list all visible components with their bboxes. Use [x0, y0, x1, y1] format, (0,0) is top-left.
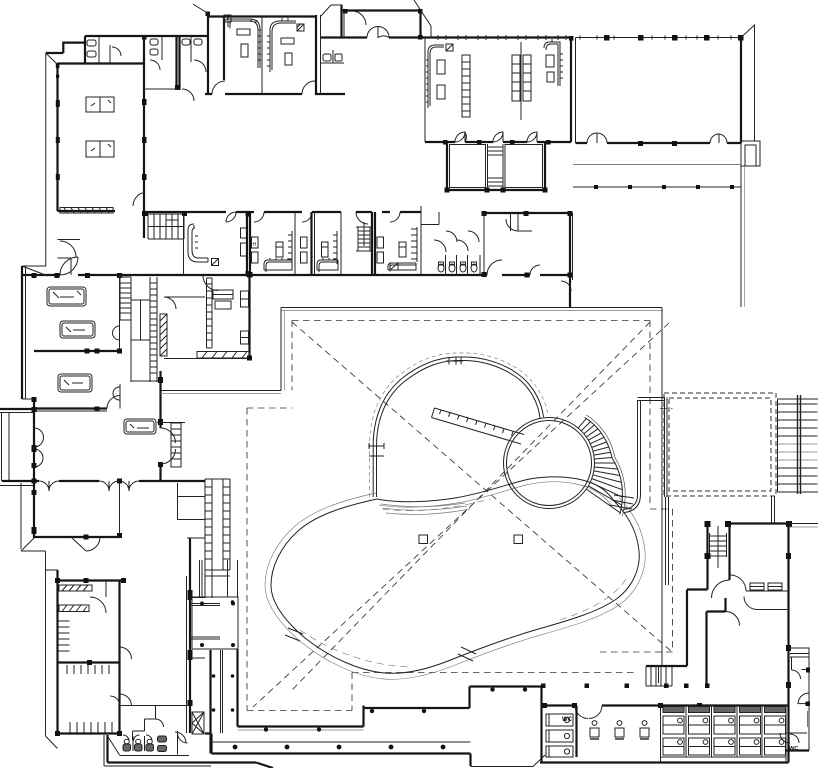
radiator east of hall [157, 423, 185, 468]
top wall of band [144, 211, 421, 213]
hatched column gym W [446, 44, 453, 51]
small WC room x321-345 [321, 50, 344, 63]
vestibule walls [687, 590, 726, 686]
gym west wall [424, 38, 426, 143]
physio east wall [119, 275, 121, 351]
room D furniture [388, 263, 416, 272]
radiator ticks west of WC [411, 227, 417, 262]
deck walkway rails [221, 650, 223, 733]
promenade left end [205, 734, 212, 754]
top corridor WC row right of hall [144, 35, 208, 37]
physio beds [47, 287, 86, 306]
thick north wall piece [340, 5, 342, 39]
wall columns west [56, 63, 60, 68]
cubicle contents 1 [663, 707, 684, 756]
hatch column bottom [192, 712, 204, 734]
center line gym [520, 42, 522, 120]
deck south wall with stair [646, 665, 687, 667]
wall under top rooms [58, 62, 145, 64]
block bottom wall [58, 732, 120, 734]
cubicle bench line [661, 756, 787, 758]
west step diagonal [21, 483, 46, 551]
platform supports [666, 497, 669, 585]
gym items west [437, 60, 445, 74]
treadmill strip 1 [462, 55, 470, 117]
west porch [0, 408, 34, 410]
mid wall of block [58, 661, 120, 663]
corridor partitions right [190, 598, 205, 659]
double door M x367-389 [367, 27, 389, 38]
dashed X diagonals [292, 322, 671, 651]
entrance double doors on west wall [34, 428, 44, 467]
hatched column room2 [297, 24, 304, 31]
hall top wall y408 double [34, 407, 107, 409]
bottom step and outer wall [108, 735, 274, 768]
column squares in hall [419, 535, 428, 544]
stair side wall [706, 523, 708, 590]
cubicle dividers [661, 706, 787, 763]
pool hall east boundary [661, 308, 663, 667]
miter corner top band [193, 4, 208, 14]
plant room box [192, 597, 238, 649]
door arc room below WC row [182, 60, 206, 101]
cubicle contents 4 [740, 707, 761, 756]
main stairwell [120, 277, 157, 382]
terrace dots [212, 674, 216, 678]
door arc below wall into store [203, 276, 218, 291]
west double wall [21, 266, 23, 399]
block west wall with door [728, 524, 730, 581]
hatched wall by stairwell [160, 314, 167, 356]
block top wall [727, 522, 789, 524]
equipment pair center [512, 55, 531, 101]
counter room2 L-shape [267, 18, 296, 72]
WC cubicle dividers [446, 255, 481, 274]
dashed long south line [352, 672, 638, 674]
platform west solid wall [665, 398, 668, 498]
hatched column room1 [224, 15, 231, 22]
pool lower lobe edge [271, 499, 639, 673]
flume top bridge [638, 398, 666, 401]
pool main S-curve [377, 477, 614, 502]
gym double doors M x3 [455, 132, 466, 142]
room B furniture [317, 258, 338, 272]
top wall y10.5 east part [342, 9, 421, 11]
room divider walls [247, 212, 250, 275]
reception desk [124, 419, 156, 434]
kiosk room wall [183, 213, 185, 275]
terrace west wall [236, 649, 238, 727]
east wall mid room [569, 213, 571, 307]
block west thick wall [56, 570, 58, 733]
WC toilets [438, 262, 477, 272]
squash middle walls with steps [488, 144, 504, 188]
kiosk L-counter [188, 224, 208, 262]
pool upper lobe edge [377, 360, 541, 497]
fan stairs east of spa [578, 415, 634, 516]
pool steps left [369, 443, 384, 456]
beach entry lines [381, 503, 470, 514]
items room1 [237, 29, 250, 35]
west wall hall [56, 64, 58, 211]
svg-text:H: H [253, 242, 257, 248]
east boundary double line [789, 523, 818, 525]
room x345-420 door arc [352, 11, 366, 25]
top wall NW room [46, 43, 85, 53]
squash inner court outlines [450, 145, 486, 188]
storage comb ticks upper [58, 621, 70, 651]
bottom wall y275 long [22, 274, 570, 276]
gym bottom wall [425, 141, 571, 143]
spa circle [504, 418, 595, 509]
gym counter west L [426, 45, 444, 108]
hatched benches [59, 585, 92, 591]
entry doors [575, 706, 602, 719]
chairs middle section [590, 721, 649, 739]
east outer wall down to pool hall [740, 166, 742, 307]
comb ticks below mid wall [67, 665, 109, 674]
bottom wall of hall with radiator [58, 210, 116, 212]
cubicle contents 3 [714, 707, 735, 756]
east thick wall of tall hall [143, 36, 145, 238]
walkway wall north-west [161, 390, 282, 392]
west wall top band [207, 14, 209, 95]
door arcs top of band [226, 212, 236, 222]
block doors [90, 581, 106, 614]
small room walls below hall [58, 240, 81, 276]
wall y384 [131, 380, 160, 382]
top wall [545, 704, 789, 706]
main wall y481 with M doors [2, 480, 205, 482]
comb ticks above bottom wall [70, 722, 112, 733]
WC fixtures top corridor [150, 39, 158, 45]
divider rooms 1-2 [261, 17, 263, 95]
west wall jog [22, 398, 34, 400]
west bench column [546, 714, 573, 757]
WC fixtures [123, 735, 167, 752]
toilet divider [99, 36, 110, 64]
counter room 1 walls [208, 17, 316, 81]
corridor walls east [573, 164, 741, 166]
door arc to corridor [175, 732, 186, 743]
room A furniture: bench + bed + fixtures [264, 258, 292, 272]
bottom wall top band [205, 93, 345, 95]
outer overhang line NW [22, 53, 46, 266]
top toilets block wall [85, 36, 144, 64]
pool inner dashed lane lines [382, 499, 490, 511]
cubicle contents 2 [689, 707, 710, 756]
block east thick wall [118, 581, 120, 734]
east double wall room2 [315, 15, 317, 94]
left H-B fixtures of kiosk wall [241, 228, 248, 238]
dashed perimeter west [247, 408, 352, 711]
pool hall north boundary [281, 307, 662, 309]
miter corner NW [46, 53, 58, 65]
gym east double wall [570, 38, 572, 143]
water slide ramp [432, 408, 525, 444]
pool lower lobe outer offset [265, 493, 645, 679]
deck columns [541, 684, 546, 689]
partition x576 [575, 706, 577, 758]
door arc hall SE [133, 193, 144, 207]
wall y37.5 left part [321, 36, 431, 38]
entrance chamfer [71, 537, 86, 551]
rooms below hall [119, 483, 121, 537]
toilet fixtures [87, 40, 96, 46]
doors on y275 [60, 257, 78, 275]
door arc above [107, 384, 120, 409]
WC lobby east [787, 687, 789, 763]
north-east stairs block [778, 395, 818, 494]
outer overhang SW [46, 551, 58, 749]
gym east counter [544, 39, 563, 86]
recess in mid room [511, 213, 533, 231]
corridor double wall x186-190 [189, 538, 191, 733]
inner partition with shelves [746, 590, 789, 592]
counter room1 L-shape [228, 19, 261, 68]
miter at x325 [321, 5, 342, 17]
squash outline [447, 142, 545, 190]
table 2 in hall [86, 141, 114, 157]
stairs room C [356, 222, 371, 251]
WC sub block x421-484 [420, 206, 422, 274]
block east wall [787, 524, 789, 688]
promenade columns [233, 745, 238, 750]
terrace step walls [238, 687, 542, 763]
stairs by wall x144 [148, 214, 184, 239]
pool hall west boundary [280, 308, 282, 391]
door arcs bottom of band [212, 81, 225, 94]
dashed platform square [664, 393, 776, 496]
vestibule door arc [726, 612, 740, 626]
dashed inner square [292, 321, 673, 653]
right column shelves [178, 483, 206, 538]
physio divider wall [34, 350, 120, 352]
door M arcs east room [587, 133, 607, 143]
flume tube verticals [623, 400, 638, 510]
promenade east end [469, 754, 471, 767]
items room2 [281, 38, 294, 44]
wall below WC row [144, 88, 180, 90]
promenade wall [212, 741, 471, 743]
east room east wall with miter [740, 38, 742, 144]
pool apex flat entry [446, 358, 463, 365]
gym items east [546, 55, 554, 67]
gym miter corner [414, 0, 431, 38]
big stair hall bottom [200, 479, 231, 598]
pool steps lower-left [285, 628, 303, 641]
pool upper lobe inner line [373, 357, 543, 497]
table 1 in hall [86, 97, 114, 112]
WC area bottom left [120, 705, 190, 707]
east wall room x420 [419, 11, 421, 38]
cubicle contents 5 [765, 707, 786, 756]
double wall in WC row [177, 36, 180, 89]
entry stair from pool deck [710, 526, 727, 568]
block top wall [58, 579, 125, 581]
bottom wall [540, 761, 789, 763]
couch room right of stairs [164, 296, 205, 298]
thick wall x160 with doors [159, 371, 161, 480]
pool steps lower-right [458, 647, 476, 661]
big mid room x484-570 [484, 212, 570, 214]
gym top wall with windows [431, 36, 571, 38]
chimney bump east [741, 141, 760, 166]
pool upper lobe dashed offset [370, 353, 549, 497]
east room top windowed wall [576, 37, 742, 39]
east room bottom wall [576, 142, 742, 144]
